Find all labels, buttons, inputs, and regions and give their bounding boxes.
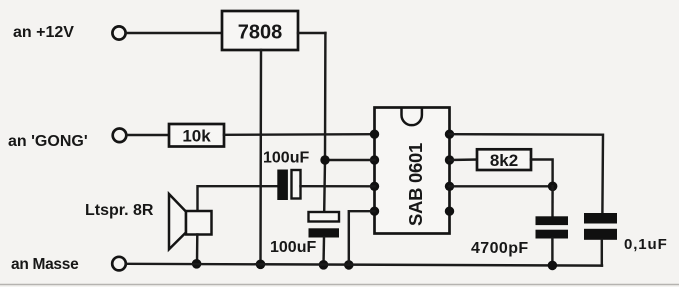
junction dot pin4-return/masse — [344, 260, 354, 270]
svg-text:8k2: 8k2 — [490, 151, 518, 170]
svg-text:Ltspr. 8R: Ltspr. 8R — [85, 202, 154, 219]
svg-text:4700pF: 4700pF — [471, 240, 529, 257]
capacitor C3 4700pF top plate — [536, 216, 569, 225]
resistor R2 8k2 — [477, 149, 531, 170]
wire IC pin 4 to masse — [349, 211, 375, 265]
svg-text:an 'GONG': an 'GONG' — [8, 133, 88, 150]
junction dot rail/pin2 — [320, 155, 329, 164]
svg-text:0,1uF: 0,1uF — [624, 236, 668, 253]
capacitor C3 4700pF bottom plate — [536, 230, 569, 239]
pin 7 — [445, 155, 454, 164]
pin 2 — [370, 155, 379, 164]
speaker LS1 driver — [186, 211, 212, 235]
wire +8V rail down to C2 — [324, 33, 325, 212]
svg-text:100uF: 100uF — [263, 150, 309, 167]
wire C1 to IC pin 3 — [301, 185, 375, 188]
wire IC pin 7 to R2 — [450, 158, 478, 161]
junction dot C2/masse — [319, 260, 329, 270]
terminal +12V — [112, 26, 125, 39]
wire 7808 output to +8V rail — [298, 32, 325, 34]
wire rail to IC pin 2 — [325, 159, 375, 161]
terminal Masse — [112, 257, 126, 271]
wire GONG terminal to R1 — [127, 134, 170, 136]
IC notch — [402, 108, 422, 125]
wire C2 to masse bus — [322, 238, 325, 265]
wire R2 to junction — [531, 160, 553, 187]
capacitor C1 100uF right plate — [292, 170, 301, 199]
svg-text:100uF: 100uF — [270, 239, 316, 256]
wire IC pin 8 to right rail down to C4 — [450, 134, 604, 213]
wire speaker to C1 — [198, 186, 278, 211]
junction dot speaker/masse — [192, 259, 202, 269]
capacitor C1 100uF left plate — [277, 170, 288, 201]
scan artifact bottom edge line — [0, 284, 679, 286]
wire R1 to IC pin 1 — [224, 133, 375, 136]
wire masse bus — [126, 264, 602, 266]
pin 4 — [370, 207, 379, 216]
wire speaker to masse bus — [196, 235, 199, 264]
wire 7808 ground lead down to masse bus — [259, 50, 262, 264]
svg-text:7808: 7808 — [238, 22, 283, 44]
pin 1 — [370, 130, 379, 139]
svg-text:10k: 10k — [182, 127, 211, 146]
capacitor C4 0,1uF top plate — [584, 213, 617, 224]
wire IC pin 6 to junction — [450, 185, 553, 187]
terminal GONG — [113, 129, 127, 143]
pin 8 — [445, 130, 454, 139]
junction dot pin6/R2/C3 — [548, 182, 558, 192]
op-amp IC U2 SAB 0601 body — [375, 108, 450, 234]
junction dot C3/masse — [548, 261, 558, 271]
wire +12V terminal to 7808 — [126, 32, 222, 34]
svg-text:an Masse: an Masse — [11, 256, 79, 273]
junction dot 7808-ground/masse — [256, 260, 266, 270]
svg-text:an +12V: an +12V — [13, 24, 74, 41]
regulator U1 7808 — [222, 11, 298, 50]
svg-text:SAB 0601: SAB 0601 — [405, 143, 426, 226]
pin 3 — [370, 182, 379, 191]
pin 5 — [445, 207, 454, 216]
resistor R1 10k — [169, 124, 224, 147]
pin 6 — [445, 182, 454, 191]
capacitor C2 100uF top plate — [309, 212, 340, 222]
capacitor C2 100uF bottom plate — [309, 228, 340, 237]
wire junction to C3 — [551, 186, 554, 216]
capacitor C4 0,1uF bottom plate — [584, 229, 617, 240]
speaker LS1 cone — [169, 194, 186, 249]
wire C3 to masse bus — [551, 239, 553, 266]
wire C4 to masse bus corner — [601, 240, 603, 266]
